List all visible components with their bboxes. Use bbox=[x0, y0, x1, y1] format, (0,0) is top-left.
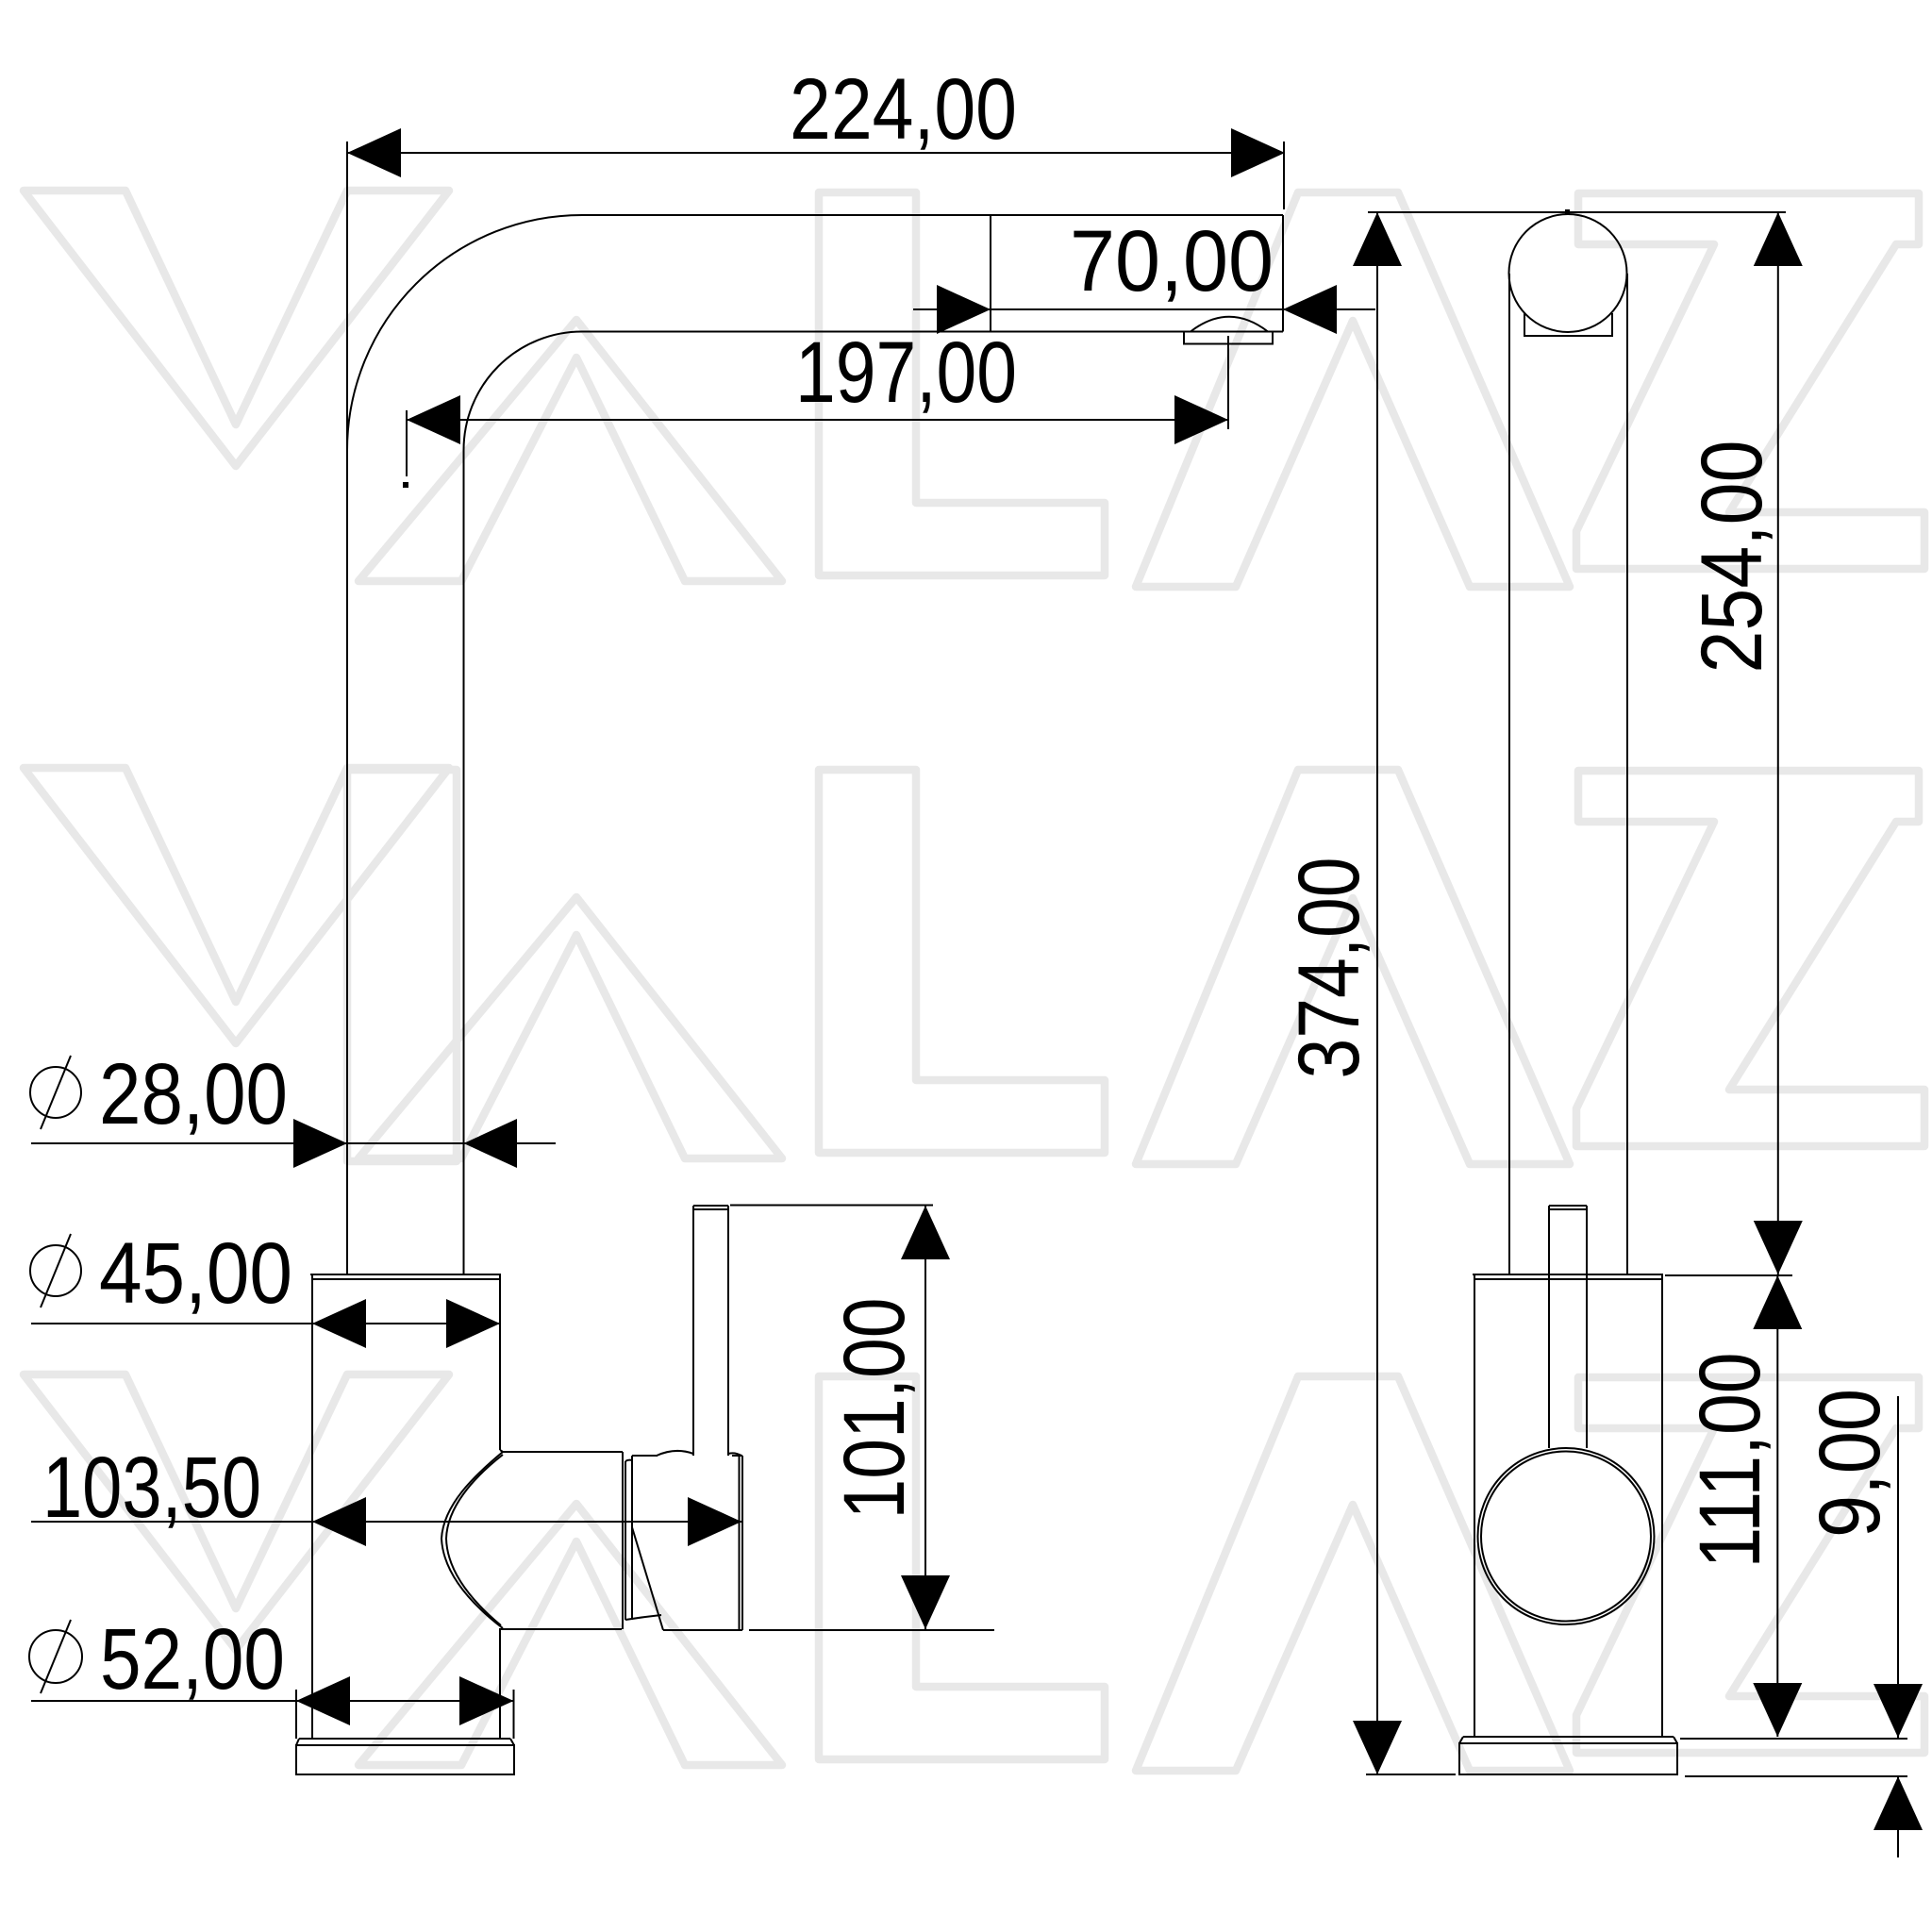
left view: riser pipe inner (right) edge bbox=[463, 450, 465, 1274]
dimension 111,00 bottom arrow bbox=[1753, 1683, 1802, 1737]
left view: handle housing bottom edge bbox=[663, 1629, 742, 1631]
watermark letter Z (row 1) bbox=[1576, 193, 1924, 569]
left view: body right edge upper segment bbox=[499, 1274, 501, 1450]
left view: body left edge bbox=[311, 1274, 313, 1739]
left view: stick base fillet right bbox=[728, 1453, 741, 1456]
dimension 103,50 line bbox=[31, 1521, 741, 1523]
dimension 101,00 bottom arrow bbox=[901, 1575, 950, 1629]
watermark extra bar (row 2) bbox=[347, 770, 457, 1161]
left view: body top face outer line bbox=[310, 1274, 501, 1275]
dimension dia52,00 left arrow bbox=[296, 1676, 350, 1725]
watermark letter A2 (row 3) bbox=[1136, 1376, 1570, 1771]
svg-text:28,00: 28,00 bbox=[99, 1046, 288, 1142]
right view: base lip right chamfer bbox=[1674, 1737, 1677, 1743]
svg-text:374,00: 374,00 bbox=[1281, 858, 1377, 1079]
right view: base lip left chamfer bbox=[1459, 1737, 1463, 1743]
dimension dia28,00 right arrow bbox=[464, 1119, 518, 1168]
right view: body top face inner line bbox=[1474, 1278, 1661, 1280]
watermark letter A2 (row 2) bbox=[1136, 770, 1570, 1164]
watermark letter V (row 1) bbox=[24, 191, 449, 466]
left view: handle housing right edge inner bbox=[739, 1456, 741, 1630]
left view: spout outer curve and top edge bbox=[347, 215, 1283, 450]
left view: base lip top edge bbox=[299, 1738, 510, 1740]
dimension 254,00 top arrow bbox=[1754, 212, 1803, 266]
watermark letter A2 (row 1) bbox=[1136, 192, 1570, 587]
dimension dia52,00 right arrow bbox=[459, 1676, 514, 1725]
right view: body right edge bbox=[1661, 1274, 1663, 1737]
svg-text:101,00: 101,00 bbox=[826, 1298, 923, 1520]
right view: center mark dot at circle top bbox=[1565, 209, 1570, 214]
left view: base lip right chamfer bbox=[510, 1739, 514, 1745]
left view: aerator dome arc bbox=[1191, 317, 1268, 332]
svg-text:103,50: 103,50 bbox=[42, 1440, 261, 1536]
dimension 9,00 bottom arrow bbox=[1874, 1776, 1923, 1830]
svg-text:52,00: 52,00 bbox=[100, 1611, 285, 1707]
left view: stick base fillet left bbox=[657, 1451, 693, 1456]
left view: cone joint outer bulge curve bbox=[441, 1452, 503, 1628]
dimension 224,00 left arrow bbox=[347, 128, 401, 177]
dimension 224,00 right arrow bbox=[1231, 128, 1285, 177]
left view: handle housing bottom-left diagonal bbox=[632, 1527, 663, 1630]
dimension 374,00 top arrow bbox=[1353, 212, 1402, 266]
right view: handle pivot outer circle bbox=[1478, 1448, 1655, 1624]
watermark letter Z (row 3) bbox=[1576, 1377, 1924, 1753]
left view: handle housing left edge bbox=[631, 1456, 633, 1527]
watermark letter Z (row 2) bbox=[1576, 771, 1924, 1146]
left view: cone joint top corner bbox=[500, 1450, 623, 1452]
dimension 197,00 line and extension bbox=[407, 340, 1228, 476]
watermark letter A (row 3) bbox=[358, 1504, 782, 1765]
dimension 374,00 bottom arrow bbox=[1353, 1721, 1402, 1774]
dimension 111,00 top arrow bbox=[1753, 1275, 1802, 1329]
right view: riser pipe left edge bbox=[1508, 274, 1510, 1274]
left view: spacer ring top cap bbox=[625, 1460, 632, 1461]
svg-text:70,00: 70,00 bbox=[1070, 213, 1274, 309]
left view: handle housing right edge outer bbox=[741, 1456, 743, 1630]
dimension 374,00 line and bottom extension bbox=[1366, 212, 1456, 1774]
right view: handle pivot inner circle bbox=[1481, 1452, 1651, 1622]
dimension dia52,00 line, diameter symbol and extension ticks bbox=[29, 1620, 514, 1739]
left view: spacer ring right line bbox=[631, 1460, 633, 1620]
dimension 70,00 line bbox=[913, 308, 1375, 310]
dimension dia45,00 right arrow bbox=[446, 1299, 500, 1348]
right view: handle stick top cap bbox=[1549, 1205, 1587, 1207]
watermark letter V (row 2) bbox=[24, 768, 449, 1043]
dimension 101,00 top arrow bbox=[901, 1206, 950, 1259]
dimension 254,00 bottom arrow bbox=[1754, 1221, 1803, 1274]
left view: body top face inner line bbox=[312, 1278, 499, 1280]
left view: handle stick top cap bbox=[693, 1205, 728, 1207]
left view: aerator center tick bbox=[1227, 336, 1229, 429]
svg-text:224,00: 224,00 bbox=[790, 61, 1017, 158]
left view: spout end cap left edge bbox=[990, 215, 991, 332]
dimension 70,00 left arrow bbox=[937, 285, 991, 334]
right view: bracket under spout circle bbox=[1524, 313, 1612, 336]
watermark letter V (row 3) bbox=[24, 1374, 449, 1650]
dimension dia28,00 left arrow bbox=[293, 1119, 347, 1168]
right view: base lip top edge bbox=[1463, 1736, 1674, 1738]
left view: handle housing top edge right part bbox=[732, 1455, 742, 1457]
dimension 103,50 right arrow bbox=[688, 1497, 741, 1546]
svg-text:254,00: 254,00 bbox=[1684, 441, 1780, 674]
left view: riser pipe outer (left) edge with extension line up bbox=[346, 142, 348, 1274]
dimension 197,00 left arrow bbox=[407, 395, 460, 444]
watermark letter A (row 1) bbox=[358, 320, 782, 581]
watermark letter L (row 2) bbox=[819, 770, 1105, 1153]
left view: spacer ring bottom arc bbox=[625, 1615, 661, 1620]
svg-text:111,00: 111,00 bbox=[1682, 1353, 1778, 1569]
left view: cone joint inner bulge curve bbox=[446, 1455, 503, 1625]
left view: spout inner curve and bottom edge bbox=[464, 332, 1284, 451]
dimension 101,00 lines and extensions bbox=[730, 1206, 994, 1631]
left view: base plate bbox=[296, 1745, 514, 1774]
watermark letter L (row 3) bbox=[819, 1376, 1105, 1759]
right view: body top face outer line bbox=[1473, 1274, 1663, 1275]
right view: spout circle (end view) bbox=[1509, 214, 1627, 332]
right view: body left edge bbox=[1474, 1274, 1475, 1737]
dimension 9,00 top arrow bbox=[1874, 1684, 1923, 1738]
left view: base lip left chamfer bbox=[296, 1739, 299, 1745]
right view: handle stick right edge bbox=[1586, 1206, 1588, 1448]
svg-text:45,00: 45,00 bbox=[99, 1225, 292, 1322]
dimension 224,00 line bbox=[347, 142, 1285, 209]
right view: base plate bbox=[1459, 1743, 1677, 1774]
dimension dia45,00 line and diameter symbol bbox=[30, 1234, 500, 1324]
dimension dia45,00 left arrow bbox=[312, 1299, 366, 1348]
left view: handle housing top edge left part bbox=[632, 1455, 658, 1457]
left view: cone joint bottom edge bbox=[500, 1628, 622, 1630]
right view: handle stick left edge bbox=[1548, 1206, 1550, 1448]
left view: cone joint right edge bbox=[622, 1452, 624, 1629]
dimension 197,00 right arrow bbox=[1174, 395, 1228, 444]
dimension dia28,00 line and diameter symbol bbox=[30, 1056, 556, 1143]
dimension 9,00 lines and base-bottom extension bbox=[1685, 1396, 1907, 1857]
left view: spacer ring left line bbox=[625, 1461, 626, 1620]
dimension 197,00 reference dot bbox=[403, 482, 408, 488]
svg-text:197,00: 197,00 bbox=[795, 325, 1017, 421]
left view: spout tip right edge bbox=[1282, 215, 1284, 332]
left view: handle stick left edge bbox=[692, 1206, 694, 1456]
right view: top extension line bbox=[1368, 211, 1786, 213]
watermark letter L (row 1) bbox=[819, 192, 1105, 575]
left view: body right edge lower segment bbox=[499, 1628, 501, 1739]
right view: riser pipe right edge bbox=[1626, 274, 1628, 1274]
watermark letter A (row 2) bbox=[358, 897, 782, 1158]
dimension 111,00 line and base-top extension bbox=[1680, 1274, 1907, 1739]
svg-text:9,00: 9,00 bbox=[1802, 1389, 1898, 1538]
right view: handle stick cap line bbox=[1549, 1208, 1587, 1210]
left view: handle stick right edge bbox=[727, 1206, 729, 1456]
left view: aerator base bbox=[1184, 332, 1273, 344]
left view: handle stick cap line bbox=[693, 1208, 728, 1210]
dimension 103,50 left arrow bbox=[312, 1497, 366, 1546]
dimension 254,00 line and body-top extension bbox=[1665, 212, 1792, 1275]
dimension 70,00 right arrow bbox=[1283, 285, 1337, 334]
